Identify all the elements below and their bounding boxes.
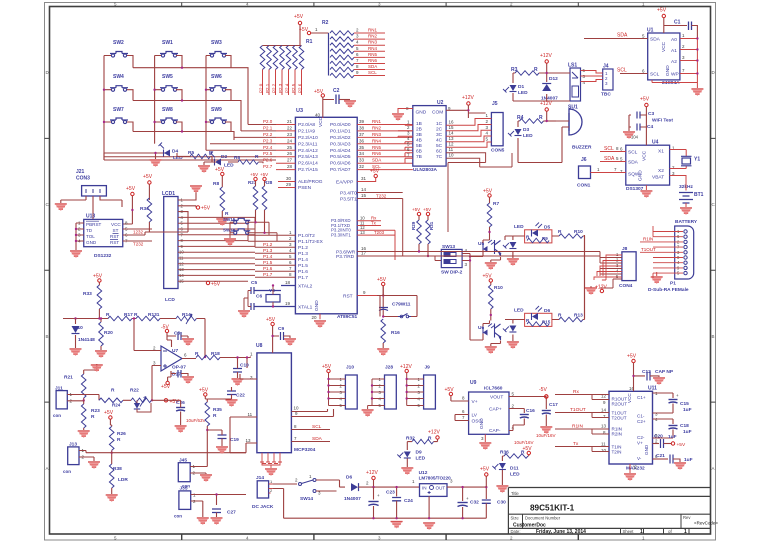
led D5 with R9 parallel box xyxy=(513,223,559,243)
svg-text:1232: 1232 xyxy=(133,230,144,235)
svg-text:C20: C20 xyxy=(654,434,663,440)
svg-text:20: 20 xyxy=(312,315,318,320)
rtc U4 DS1307 xyxy=(620,140,675,193)
svg-text:+12V: +12V xyxy=(462,95,474,101)
dip switch SW13 xyxy=(441,244,479,340)
svg-text:+5V: +5V xyxy=(370,169,380,175)
wires U2 6C 7C going down xyxy=(446,153,512,232)
svg-text:T232: T232 xyxy=(376,193,387,198)
svg-text:1uF: 1uF xyxy=(668,434,677,440)
wires + pin numbers R2 outputs xyxy=(354,28,385,76)
svg-text:SW4: SW4 xyxy=(113,74,124,80)
svg-text:-5V: -5V xyxy=(539,387,547,393)
svg-text:GND: GND xyxy=(479,418,485,429)
svg-text:C24: C24 xyxy=(404,498,413,504)
svg-text:1uF: 1uF xyxy=(684,457,693,463)
svg-text:CustomerDoc: CustomerDoc xyxy=(513,523,546,529)
keypad switch SW8 xyxy=(160,107,178,124)
svg-text:R23: R23 xyxy=(91,408,100,414)
svg-text:ST: ST xyxy=(113,228,119,233)
svg-text:Title: Title xyxy=(511,491,519,496)
ground LCD pin1 xyxy=(178,186,202,200)
resistor R7 xyxy=(483,189,499,237)
svg-text:P3.3/INT1: P3.3/INT1 xyxy=(331,232,351,237)
keypad switch SW1 xyxy=(160,40,178,57)
svg-text:R32: R32 xyxy=(406,436,415,442)
svg-text:RN5: RN5 xyxy=(368,52,377,57)
svg-text:R8: R8 xyxy=(213,181,219,187)
svg-text:P1.2: P1.2 xyxy=(298,245,308,251)
svg-text:C10: C10 xyxy=(240,363,249,369)
svg-text:+12V: +12V xyxy=(540,101,552,107)
svg-text:+5V: +5V xyxy=(627,354,637,360)
svg-text:LED: LED xyxy=(514,224,524,230)
svg-text:D-Sub-RA FEMale: D-Sub-RA FEMale xyxy=(648,287,689,293)
svg-text:LM7805/TO220: LM7805/TO220 xyxy=(419,476,452,481)
svg-text:13: 13 xyxy=(246,438,252,443)
svg-text:4B: 4B xyxy=(416,138,422,144)
led D14 (U6 indicator) xyxy=(503,320,519,350)
svg-text:P2.2: P2.2 xyxy=(263,132,273,137)
power +5V LCD pin15 xyxy=(206,281,220,287)
svg-text:14: 14 xyxy=(601,408,607,413)
svg-text:C5: C5 xyxy=(251,280,257,286)
svg-text:R28: R28 xyxy=(264,180,273,185)
svg-text:BUZZER: BUZZER xyxy=(572,145,592,151)
svg-text:27: 27 xyxy=(287,158,293,163)
svg-text:R: R xyxy=(539,115,543,121)
svg-text:13: 13 xyxy=(601,424,607,429)
svg-text:GND: GND xyxy=(314,300,320,311)
svg-text:+5V: +5V xyxy=(677,442,686,448)
crystal Y1 xyxy=(670,150,701,169)
svg-text:11: 11 xyxy=(248,412,253,417)
svg-text:+12V: +12V xyxy=(428,430,440,436)
svg-text:1B: 1B xyxy=(416,121,422,127)
svg-text:T203: T203 xyxy=(374,230,385,235)
svg-text:GND: GND xyxy=(86,240,97,245)
svg-text:P0.4/AD4: P0.4/AD4 xyxy=(330,148,351,154)
svg-text:Y1: Y1 xyxy=(694,157,700,163)
svg-text:B: B xyxy=(712,334,715,339)
svg-text:R21: R21 xyxy=(64,375,73,381)
wire keypad row bus 1 xyxy=(127,56,248,125)
frame zone ticks left xyxy=(45,138,50,402)
svg-text:RST: RST xyxy=(110,234,119,239)
svg-text:34: 34 xyxy=(359,151,365,156)
svg-text:P2.5: P2.5 xyxy=(291,83,296,93)
svg-text:B: B xyxy=(46,334,49,339)
svg-text:D2: D2 xyxy=(221,154,227,160)
resistor R24 and trimmer R22 xyxy=(99,388,164,408)
svg-text:T2IN: T2IN xyxy=(612,450,622,455)
svg-text:LED: LED xyxy=(523,133,533,139)
svg-text:C79W11: C79W11 xyxy=(392,302,411,308)
U2 left input wires xyxy=(398,125,413,164)
connector J45 xyxy=(178,437,212,489)
capacitor C10 xyxy=(232,356,250,386)
svg-text:D1: D1 xyxy=(518,84,524,90)
svg-text:SW7: SW7 xyxy=(113,107,124,113)
svg-text:P2.4/A12: P2.4/A12 xyxy=(298,148,318,154)
svg-text:C23: C23 xyxy=(386,490,395,496)
power +5V LCD pin2 xyxy=(178,206,211,212)
svg-text:R3: R3 xyxy=(511,67,518,73)
svg-text:24: 24 xyxy=(287,138,293,143)
svg-text:P1.6: P1.6 xyxy=(298,269,308,275)
svg-text:ULN2803A: ULN2803A xyxy=(413,167,438,173)
svg-text:P1.3: P1.3 xyxy=(263,248,273,253)
rs232 U11 MAX232 xyxy=(601,386,658,472)
svg-text:35: 35 xyxy=(359,145,365,150)
svg-text:14: 14 xyxy=(361,187,367,192)
svg-text:J10: J10 xyxy=(346,365,354,371)
svg-text:+: + xyxy=(676,393,679,398)
svg-text:38: 38 xyxy=(359,125,365,130)
U3 WR RD pins xyxy=(357,246,441,261)
svg-text:15: 15 xyxy=(361,193,367,198)
regulator U12 LM7805 xyxy=(412,470,486,530)
svg-text:C2-: C2- xyxy=(637,435,645,440)
svg-text:+5V: +5V xyxy=(199,388,209,394)
resistor R4 xyxy=(517,115,556,123)
svg-text:CAP+: CAP+ xyxy=(489,407,502,413)
svg-text:PSEN: PSEN xyxy=(298,185,312,191)
svg-text:1C: 1C xyxy=(436,121,443,127)
resistor R34 xyxy=(140,174,153,235)
svg-text:C15: C15 xyxy=(680,401,689,407)
reset switch circuit xyxy=(377,277,417,356)
microcontroller U3 AT89C51 xyxy=(295,108,357,328)
svg-text:89C51KIT-1: 89C51KIT-1 xyxy=(530,504,575,513)
U8 right wires SCL SDA xyxy=(291,409,333,442)
svg-text:RST: RST xyxy=(343,294,353,300)
resistor R36 with D11 xyxy=(500,446,532,461)
svg-text:D17: D17 xyxy=(172,372,181,378)
capacitor C31 electrolytic input xyxy=(368,487,380,519)
svg-text:1: 1 xyxy=(684,529,687,535)
svg-text:+5V: +5V xyxy=(161,384,171,390)
svg-text:SDA: SDA xyxy=(650,37,661,43)
capacitor C19 xyxy=(207,430,239,454)
power +5V keypad pullup pack xyxy=(294,14,304,46)
svg-text:P1.7: P1.7 xyxy=(263,272,273,277)
svg-text:P0.2/AD2: P0.2/AD2 xyxy=(330,135,351,141)
svg-text:+5V: +5V xyxy=(294,14,304,20)
svg-text:+5V: +5V xyxy=(483,189,493,195)
negative supply -5V and C8 xyxy=(161,325,194,348)
svg-text:J8: J8 xyxy=(622,246,628,252)
svg-text:SW3: SW3 xyxy=(211,40,222,46)
svg-text:RN3: RN3 xyxy=(368,40,377,45)
svg-text:SW14: SW14 xyxy=(300,496,313,502)
svg-text:15: 15 xyxy=(633,464,638,470)
svg-text:U8: U8 xyxy=(256,343,263,349)
wires SCL SDA to U4 xyxy=(600,146,626,162)
svg-text:AT89C51: AT89C51 xyxy=(337,314,358,320)
svg-text:U3: U3 xyxy=(296,108,303,114)
wires P1 pins xyxy=(640,226,683,278)
svg-text:U13: U13 xyxy=(86,214,95,220)
svg-text:SDA: SDA xyxy=(368,64,377,69)
svg-text:P1.1/T2-EX: P1.1/T2-EX xyxy=(298,239,324,245)
svg-text:VCC: VCC xyxy=(111,222,121,227)
svg-text:6B: 6B xyxy=(416,149,422,155)
svg-text:P2.4: P2.4 xyxy=(263,145,273,150)
svg-text:P2.3: P2.3 xyxy=(263,138,273,143)
optocoupler U5 xyxy=(478,237,502,271)
svg-text:CAP NP: CAP NP xyxy=(655,369,674,375)
svg-text:P2.6: P2.6 xyxy=(298,83,303,93)
svg-text:R20: R20 xyxy=(104,330,113,336)
U3 EA/VPP pin to +5V xyxy=(357,169,380,182)
svg-text:+5V: +5V xyxy=(260,172,268,177)
wire keypad row bus 3 xyxy=(127,122,234,140)
svg-text:P2.7: P2.7 xyxy=(263,164,273,169)
svg-text:R1IN: R1IN xyxy=(643,236,653,241)
svg-text:+5V: +5V xyxy=(93,274,103,280)
power +12V near P1 xyxy=(585,285,607,296)
U8 bottom pins to ground xyxy=(260,453,282,476)
power +5V U8 with C9 cap xyxy=(266,317,296,353)
capacitor C21 xyxy=(653,453,693,470)
svg-text:OUT: OUT xyxy=(436,486,446,491)
connector J35 xyxy=(174,486,246,526)
input node wire xyxy=(63,318,108,320)
svg-text:con: con xyxy=(174,514,182,519)
power +5V U1 xyxy=(657,8,687,34)
power +5V node after R22 xyxy=(164,399,179,405)
svg-text:RN2: RN2 xyxy=(368,34,377,39)
svg-text:C21: C21 xyxy=(656,453,665,459)
svg-text:P3.4/T0: P3.4/T0 xyxy=(340,191,357,197)
dc jack J14 xyxy=(252,475,486,518)
wires U13 left pins xyxy=(70,223,84,258)
svg-text:R: R xyxy=(117,437,121,443)
svg-text:LED: LED xyxy=(416,456,426,462)
capacitor C16 xyxy=(509,408,535,445)
svg-text:10uF/16V: 10uF/16V xyxy=(536,433,556,438)
resistor R18 xyxy=(195,351,250,368)
wires U13 right RST nets xyxy=(123,229,152,247)
diode D10 1N4148 xyxy=(70,319,96,357)
svg-text:Friday, June 13, 2014: Friday, June 13, 2014 xyxy=(536,529,586,535)
capacitor C17 xyxy=(536,399,558,438)
svg-text:C27: C27 xyxy=(227,510,236,516)
svg-text:SDA: SDA xyxy=(312,436,323,442)
svg-text:LED: LED xyxy=(224,163,234,169)
svg-text:P0.0/AD0: P0.0/AD0 xyxy=(330,122,351,128)
led D3 xyxy=(508,121,533,146)
svg-text:C1-: C1- xyxy=(637,414,645,419)
svg-text:COM: COM xyxy=(432,110,443,116)
svg-text:OP-07: OP-07 xyxy=(172,365,186,371)
capacitor C23 xyxy=(386,486,413,529)
svg-text:SCL: SCL xyxy=(312,424,322,430)
ground stub near R21 xyxy=(91,364,103,372)
svg-text:A2: A2 xyxy=(671,59,677,65)
svg-text:SW9: SW9 xyxy=(211,107,222,113)
svg-text:+: + xyxy=(377,493,380,498)
svg-text:C1: C1 xyxy=(674,20,681,26)
svg-text:29: 29 xyxy=(286,182,292,187)
svg-text:R7: R7 xyxy=(493,201,499,207)
svg-text:23: 23 xyxy=(287,132,293,137)
U3 RST pin wire xyxy=(357,290,380,296)
svg-text:+5V: +5V xyxy=(266,317,276,323)
svg-text:VCC: VCC xyxy=(642,150,648,161)
svg-text:SW5: SW5 xyxy=(162,74,173,80)
resistor R8 xyxy=(213,167,229,226)
svg-text:P2.1: P2.1 xyxy=(265,83,270,93)
resistor pack R1 (7 pullups) xyxy=(260,39,312,95)
svg-text:J9: J9 xyxy=(425,365,431,371)
connector J11 xyxy=(53,386,99,419)
svg-text:37: 37 xyxy=(359,132,365,137)
svg-text:Size: Size xyxy=(511,515,520,520)
power +12V regulator input xyxy=(366,470,378,488)
svg-text:R13: R13 xyxy=(574,313,583,319)
svg-text:MCP3204: MCP3204 xyxy=(294,447,316,453)
buzzer SU1 xyxy=(518,105,592,163)
svg-text:2B: 2B xyxy=(416,127,422,133)
svg-text:21: 21 xyxy=(287,119,293,124)
svg-text:C4: C4 xyxy=(647,124,653,130)
svg-text:EA/VPP: EA/VPP xyxy=(336,180,353,186)
capacitor C1 xyxy=(674,20,697,39)
svg-text:P2.6: P2.6 xyxy=(263,158,273,163)
svg-text:SW DIP-2: SW DIP-2 xyxy=(441,270,463,276)
svg-text:30: 30 xyxy=(286,176,292,181)
svg-text:5C: 5C xyxy=(436,143,443,149)
svg-text:Rev: Rev xyxy=(683,515,691,520)
svg-text:SDA: SDA xyxy=(372,158,381,163)
svg-text:+5V: +5V xyxy=(201,206,211,212)
svg-text:PBRST: PBRST xyxy=(86,222,102,227)
svg-text:R1: R1 xyxy=(306,39,313,45)
diode 1N4007 flyback xyxy=(541,72,558,102)
U3 P3.4 P3.5 pins xyxy=(357,187,403,256)
svg-text:39: 39 xyxy=(359,119,365,124)
svg-text:SCL: SCL xyxy=(604,146,614,152)
svg-text:P1.5: P1.5 xyxy=(263,260,273,265)
svg-text:A1: A1 xyxy=(671,48,677,54)
svg-text:T2OUT: T2OUT xyxy=(612,416,627,421)
svg-text:J14: J14 xyxy=(256,475,264,481)
svg-text:+5V: +5V xyxy=(250,172,258,177)
resistor R35 xyxy=(199,388,222,437)
frame zone ticks bottom xyxy=(182,534,579,540)
wires U2 outputs to J5 xyxy=(446,119,491,148)
svg-text:SDA: SDA xyxy=(628,160,639,166)
svg-text:10uF/63V: 10uF/63V xyxy=(186,418,206,423)
svg-text:6C: 6C xyxy=(436,149,443,155)
svg-text:P2.2: P2.2 xyxy=(272,83,277,93)
keypad switch SW4 xyxy=(110,74,128,91)
svg-text:X2: X2 xyxy=(658,168,664,174)
keypad switch SW9 xyxy=(209,107,227,124)
resistors R29 R31 xyxy=(411,207,434,257)
power +12V for relay common xyxy=(446,95,486,118)
svg-text:31: 31 xyxy=(361,176,367,181)
svg-text:P0.5/AD5: P0.5/AD5 xyxy=(330,154,351,160)
svg-text:SDA: SDA xyxy=(604,156,615,162)
resistor network R2 xyxy=(322,20,354,78)
U3 right pin wires P0 bus to U2 xyxy=(357,119,413,170)
svg-text:1: 1 xyxy=(640,529,643,535)
wire keypad row bus 2 xyxy=(127,90,241,131)
svg-text:C9: C9 xyxy=(278,326,284,332)
net labels P2.x under pack R1 (rotated) xyxy=(259,83,303,93)
lcd connector LCD1 xyxy=(162,191,184,303)
switch SW14 xyxy=(295,474,345,502)
svg-text:R2: R2 xyxy=(322,20,329,26)
wire keypad column bus 3 xyxy=(206,56,210,151)
svg-text:LV: LV xyxy=(472,413,478,419)
svg-text:+5V: +5V xyxy=(126,186,136,192)
svg-text:LED: LED xyxy=(518,90,528,96)
svg-text:V+: V+ xyxy=(637,441,643,446)
connector J5 CON5 xyxy=(486,101,505,154)
connector J6 CON1 xyxy=(577,157,626,189)
keypad switch SW7 xyxy=(110,107,128,124)
resistor R3 xyxy=(511,67,568,75)
U11 ground pin 15 xyxy=(624,464,636,481)
power +5V regulator output xyxy=(480,467,490,488)
svg-text:T1OUT: T1OUT xyxy=(570,407,586,413)
resistor R5 xyxy=(177,150,216,162)
capacitor C22 xyxy=(207,387,245,407)
svg-text:4C: 4C xyxy=(436,138,443,144)
capacitor C27 xyxy=(211,509,237,525)
svg-text:P2.5: P2.5 xyxy=(263,151,273,156)
svg-text:D9: D9 xyxy=(416,450,422,456)
svg-text:T232: T232 xyxy=(133,242,144,247)
power +5V DS1232 xyxy=(123,186,136,224)
svg-text:P1.0/T2: P1.0/T2 xyxy=(298,233,315,239)
svg-text:R2IN: R2IN xyxy=(612,432,622,437)
svg-text:25: 25 xyxy=(287,145,293,150)
svg-text:C2: C2 xyxy=(333,88,340,94)
svg-text:BT1: BT1 xyxy=(694,192,704,198)
svg-text:R: R xyxy=(91,414,95,420)
led D13 (U5 indicator) xyxy=(503,236,519,266)
svg-text:+5V: +5V xyxy=(377,277,387,283)
svg-text:R18: R18 xyxy=(211,351,220,357)
wires LCD data pins xyxy=(178,217,255,281)
svg-text:J28: J28 xyxy=(385,365,393,371)
svg-text:CON1: CON1 xyxy=(577,183,591,189)
svg-text:1uF: 1uF xyxy=(683,429,692,435)
svg-text:Y2: Y2 xyxy=(269,288,275,294)
led D9 xyxy=(397,450,425,476)
svg-text:XTAL1: XTAL1 xyxy=(298,305,313,311)
svg-text:D12: D12 xyxy=(549,76,558,82)
switch SW16 xyxy=(223,222,277,246)
resistor R6 xyxy=(228,154,263,164)
svg-text:C16: C16 xyxy=(526,408,535,414)
op-amp U7 OP-07 xyxy=(133,317,196,401)
svg-text:Rx: Rx xyxy=(573,389,579,395)
svg-text:Document Number: Document Number xyxy=(525,515,561,520)
U3 serial pins Rx Tx xyxy=(357,216,395,261)
svg-text:GND: GND xyxy=(644,444,649,455)
svg-text:C32: C32 xyxy=(470,500,479,506)
svg-text:+5V: +5V xyxy=(104,410,114,416)
power +5V U11 with C12 xyxy=(627,354,674,392)
capacitor C20 and +5V xyxy=(653,434,686,449)
svg-text:<RevCode>: <RevCode> xyxy=(694,521,718,526)
